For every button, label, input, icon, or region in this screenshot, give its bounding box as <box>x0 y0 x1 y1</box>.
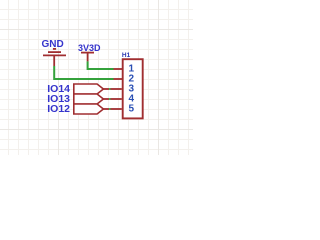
svg-text:H1: H1 <box>122 52 131 59</box>
svg-text:5: 5 <box>129 104 135 115</box>
svg-text:IO12: IO12 <box>47 103 70 115</box>
svg-text:3V3D: 3V3D <box>78 43 101 53</box>
svg-text:GND: GND <box>41 39 63 50</box>
